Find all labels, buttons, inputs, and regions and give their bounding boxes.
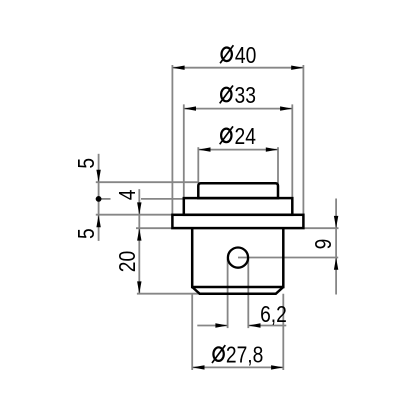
svg-text:5: 5	[73, 158, 99, 169]
svg-text:4: 4	[114, 189, 140, 200]
svg-text:9: 9	[310, 239, 336, 250]
svg-text:40: 40	[235, 42, 256, 68]
svg-text:27,8: 27,8	[226, 342, 263, 368]
svg-text:33: 33	[235, 82, 256, 108]
svg-text:24: 24	[235, 123, 256, 149]
svg-text:20: 20	[114, 251, 140, 272]
svg-text:5: 5	[73, 228, 99, 239]
svg-text:6,2: 6,2	[260, 301, 287, 327]
